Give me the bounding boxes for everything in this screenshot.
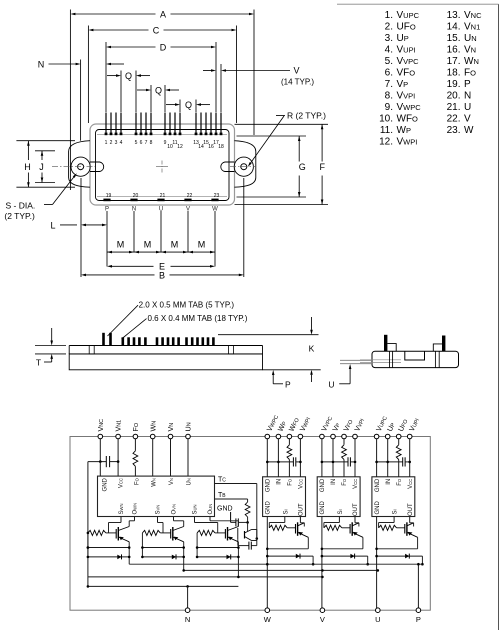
svg-text:VN: VN — [464, 45, 476, 56]
svg-text:N: N — [185, 615, 190, 624]
svg-text:U: U — [328, 379, 334, 389]
svg-text:M: M — [171, 239, 179, 249]
svg-text:GND: GND — [320, 501, 326, 515]
svg-text:C: C — [153, 25, 160, 35]
svg-text:VNC: VNC — [464, 10, 482, 21]
svg-text:GND: GND — [217, 506, 233, 513]
svg-text:J: J — [39, 162, 44, 172]
svg-text:8: 8 — [150, 140, 153, 146]
svg-text:H: H — [24, 162, 31, 172]
svg-text:2.0 X 0.5 MM TAB (5 TYP.): 2.0 X 0.5 MM TAB (5 TYP.) — [139, 300, 235, 309]
svg-text:IN: IN — [277, 479, 283, 485]
svg-text:9.: 9. — [385, 102, 393, 113]
svg-text:N: N — [464, 91, 471, 102]
svg-text:Q: Q — [155, 85, 162, 95]
svg-text:19.: 19. — [447, 79, 461, 90]
svg-text:9: 9 — [164, 140, 167, 146]
svg-text:V: V — [293, 66, 299, 76]
svg-text:10.: 10. — [379, 114, 393, 125]
svg-text:VFO: VFO — [397, 68, 416, 79]
svg-text:FO: FO — [464, 68, 476, 79]
svg-text:VVPC: VVPC — [397, 56, 420, 67]
svg-text:W: W — [264, 615, 272, 624]
svg-text:P: P — [464, 79, 471, 90]
svg-text:GND: GND — [320, 478, 326, 492]
svg-text:18.: 18. — [447, 68, 461, 79]
svg-text:OUT: OUT — [299, 503, 305, 516]
svg-text:OUT: OUT — [353, 503, 359, 516]
svg-text:8.: 8. — [385, 91, 393, 102]
svg-text:IN: IN — [331, 479, 337, 485]
svg-text:3.: 3. — [385, 33, 393, 44]
svg-text:19: 19 — [106, 193, 112, 199]
svg-text:M: M — [117, 239, 125, 249]
svg-text:A: A — [160, 9, 166, 19]
svg-text:1: 1 — [105, 140, 108, 146]
svg-text:1.: 1. — [385, 10, 393, 21]
svg-text:(2 TYP.): (2 TYP.) — [4, 211, 35, 221]
svg-text:20: 20 — [133, 193, 139, 199]
svg-text:4.: 4. — [385, 45, 393, 56]
svg-text:D: D — [160, 42, 167, 52]
svg-text:L: L — [50, 221, 55, 231]
svg-text:S - DIA.: S - DIA. — [6, 201, 36, 211]
svg-text:WP: WP — [397, 125, 411, 136]
svg-text:U: U — [464, 102, 471, 113]
svg-text:7: 7 — [145, 140, 148, 146]
svg-text:22.: 22. — [447, 114, 461, 125]
svg-text:UP: UP — [397, 33, 409, 44]
svg-text:F: F — [320, 162, 326, 172]
svg-text:11.: 11. — [380, 125, 393, 136]
svg-text:16.: 16. — [447, 45, 461, 56]
svg-text:V: V — [464, 114, 471, 125]
svg-text:GND: GND — [103, 477, 109, 491]
svg-text:3: 3 — [115, 140, 118, 146]
svg-text:GND: GND — [266, 478, 272, 492]
svg-text:22: 22 — [187, 193, 193, 199]
svg-text:M: M — [144, 239, 152, 249]
svg-text:VUPI: VUPI — [397, 45, 416, 56]
svg-text:WFO: WFO — [397, 114, 419, 125]
svg-text:VN1: VN1 — [464, 22, 480, 33]
svg-text:UFO: UFO — [397, 22, 416, 33]
svg-text:B: B — [159, 271, 165, 281]
svg-text:IN: IN — [386, 479, 392, 485]
svg-text:W: W — [464, 125, 474, 136]
svg-text:17.: 17. — [447, 56, 461, 67]
svg-text:5.: 5. — [385, 56, 393, 67]
svg-text:N: N — [38, 60, 45, 70]
svg-text:21.: 21. — [447, 102, 461, 113]
svg-text:M: M — [198, 239, 206, 249]
svg-text:TC: TC — [218, 477, 226, 484]
svg-text:6: 6 — [140, 140, 143, 146]
svg-text:7.: 7. — [385, 79, 393, 90]
svg-text:6.: 6. — [385, 68, 393, 79]
svg-text:VWPC: VWPC — [397, 102, 422, 113]
svg-text:VWPI: VWPI — [397, 137, 418, 148]
svg-text:23.: 23. — [447, 125, 461, 136]
svg-text:VP: VP — [397, 79, 409, 90]
svg-text:13.: 13. — [447, 10, 461, 21]
svg-text:GND: GND — [266, 501, 272, 515]
svg-text:P: P — [416, 615, 421, 624]
svg-text:WN: WN — [464, 56, 479, 67]
svg-text:15.: 15. — [447, 33, 461, 44]
svg-text:U: U — [375, 615, 380, 624]
svg-text:GND: GND — [375, 501, 381, 515]
svg-text:2: 2 — [110, 140, 113, 146]
svg-text:K: K — [309, 343, 315, 353]
svg-text:UN: UN — [464, 33, 477, 44]
svg-text:OUT: OUT — [408, 503, 414, 516]
svg-text:P: P — [285, 379, 291, 389]
svg-text:VVPI: VVPI — [397, 91, 416, 102]
svg-text:14.: 14. — [447, 22, 461, 33]
svg-text:21: 21 — [160, 193, 166, 199]
svg-text:18: 18 — [218, 144, 224, 150]
svg-text:T: T — [36, 357, 41, 367]
svg-text:12.: 12. — [379, 137, 393, 148]
svg-text:R (2 TYP.): R (2 TYP.) — [287, 111, 326, 121]
svg-text:V: V — [320, 615, 325, 624]
svg-text:(14 TYP.): (14 TYP.) — [281, 77, 314, 86]
svg-text:Q: Q — [185, 100, 192, 110]
svg-text:12: 12 — [177, 144, 183, 150]
svg-text:20.: 20. — [447, 91, 461, 102]
svg-text:2.: 2. — [385, 22, 393, 33]
svg-text:TB: TB — [218, 492, 226, 499]
svg-text:G: G — [299, 162, 306, 172]
svg-text:5: 5 — [135, 140, 138, 146]
svg-text:GND: GND — [375, 478, 381, 492]
svg-text:4: 4 — [120, 140, 123, 146]
svg-text:Q: Q — [125, 71, 132, 81]
svg-text:23: 23 — [214, 193, 220, 199]
svg-text:0.6 X 0.4 MM TAB (18 TYP.): 0.6 X 0.4 MM TAB (18 TYP.) — [148, 314, 248, 323]
svg-text:VUPC: VUPC — [397, 10, 420, 21]
